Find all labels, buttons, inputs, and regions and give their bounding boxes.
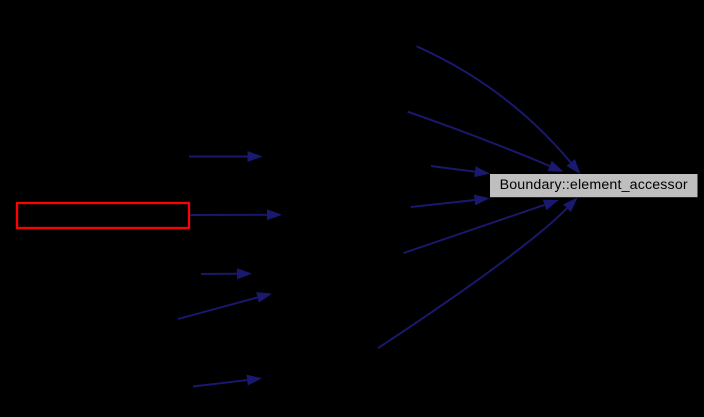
edge E (left column, y=386) — [193, 375, 262, 387]
edge K (bottom long curve into box bottom) — [378, 198, 578, 349]
node current-function (red outline box) — [17, 203, 189, 228]
svg-text:Boundary::element_accessor: Boundary::element_accessor — [500, 177, 688, 193]
edge F (top long curve into box top) — [417, 46, 581, 174]
edge A (left column to middle, y=156) — [189, 151, 263, 162]
edge G (second curve into box top) — [408, 112, 564, 172]
edge H (short into box left top) — [431, 166, 490, 177]
edge B (from red box) — [190, 209, 282, 220]
node Boundary::element_accessor (grey box) — [490, 174, 698, 197]
edge J (long straight into box bottom) — [403, 200, 558, 254]
edge C (left column, y=274) — [201, 268, 252, 279]
edge I (into box left bottom) — [411, 195, 490, 208]
edge D (left column diagonal, y=320 to 292) — [178, 292, 272, 319]
